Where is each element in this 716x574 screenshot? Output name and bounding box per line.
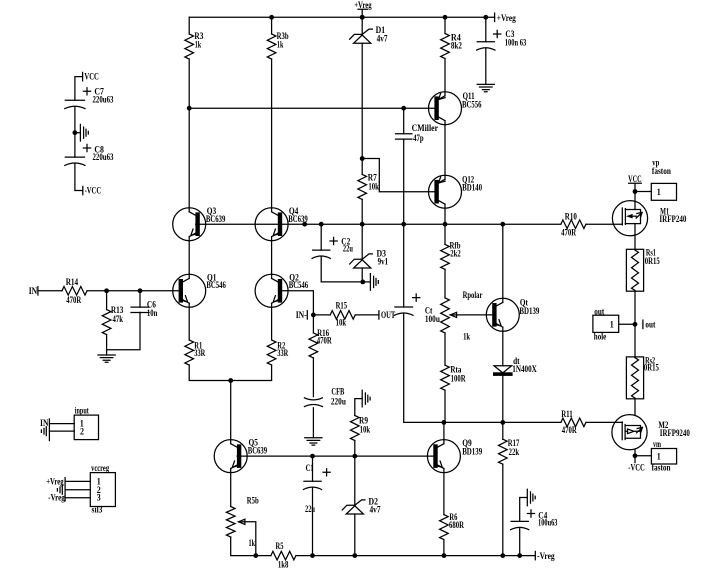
label R13 47k (111, 305, 124, 324)
wire Q12 base jog (362, 159, 435, 192)
resistor R2 (267, 340, 276, 365)
wire C1 to bottom rail (312, 488, 314, 556)
resistor Rs1 0R15 (626, 249, 643, 291)
wire Q1 emitter (188, 303, 190, 340)
svg-text:2: 2 (80, 427, 84, 437)
resistor R1 (185, 340, 194, 365)
resistor R13 (102, 310, 111, 335)
svg-text:2k2: 2k2 (450, 248, 461, 258)
resistor R14 (62, 287, 87, 296)
transistor Q1 BC546 (173, 274, 206, 307)
junction bottom rail / D2 (352, 553, 357, 558)
svg-text:vm: vm (653, 439, 661, 449)
svg-text:1k: 1k (277, 40, 284, 50)
svg-text:BC639: BC639 (288, 214, 308, 224)
resistor R4 (441, 34, 450, 59)
junction rail / Ct column (401, 222, 406, 227)
capacitor CMiller 47p (396, 134, 412, 139)
wire D3 column (361, 224, 363, 259)
label C8 220u63 (93, 144, 114, 162)
wire R17 top lead (502, 422, 504, 439)
mosfet M2 IRFP9240 (612, 415, 647, 450)
label vm faston pin1 (652, 439, 671, 472)
label Rpolar 1k (463, 290, 483, 341)
svg-text:220u63: 220u63 (93, 152, 114, 162)
label CFB 220u (331, 387, 346, 407)
svg-text:33R: 33R (277, 348, 288, 358)
svg-text:1: 1 (657, 451, 661, 461)
svg-text:470R: 470R (317, 336, 332, 346)
svg-text:-VCC: -VCC (628, 462, 645, 472)
wire C1 top lead (312, 456, 314, 481)
net tick VCC left (82, 72, 84, 80)
svg-text:100u: 100u (425, 314, 440, 324)
label R4 8k2 (451, 33, 462, 51)
junction +Vreg stub (360, 15, 365, 20)
svg-text:faston: faston (652, 463, 671, 473)
svg-text:IRFP9240: IRFP9240 (660, 428, 690, 438)
transistor Q12 BD140 (429, 175, 462, 208)
label R6 680R (449, 512, 464, 530)
wire input pin2 (49, 430, 74, 432)
junction top rail / R4 (443, 15, 448, 20)
label R5b 1k (247, 495, 259, 548)
wire IN- node to R15 (313, 314, 330, 316)
wire R5b wiper to bottom rail (245, 522, 256, 556)
svg-text:BC546: BC546 (206, 280, 226, 290)
wire R9 ground stub (355, 399, 362, 416)
ground under C3 (477, 84, 494, 91)
wire R2 to tail (231, 365, 272, 381)
wire C4 ground stub (520, 498, 528, 522)
wire +Vreg top rail (189, 16, 494, 18)
wire R1 to tail (189, 365, 231, 381)
wire stub ground R13 (106, 350, 108, 355)
wire Rpolar to Rta (444, 333, 446, 365)
ground at vccreg (57, 485, 62, 494)
junction Q5 rail / C1 (310, 454, 315, 459)
wire R14 to Q1 base (87, 290, 179, 292)
wire R7 to main rail (361, 199, 363, 224)
label IN (29, 286, 38, 296)
label out right (645, 319, 655, 329)
zener D2 (342, 500, 365, 514)
junction VCC / vp connector (633, 189, 638, 194)
ground under R13/C6 (98, 355, 115, 362)
junction rail / Qt collector (500, 222, 505, 227)
resistor R7 (358, 174, 367, 199)
wire Q9 emitter to R6 (443, 469, 445, 515)
svg-text:OUT: OUT (381, 310, 395, 320)
wire M1 source to Rs1 (634, 224, 636, 250)
resistor Rfb (441, 244, 450, 269)
label Q9 BD139 (462, 438, 482, 456)
junction top rail / R3b (269, 15, 274, 20)
svg-text:470R: 470R (562, 425, 577, 435)
transistor Q2 BC546 (255, 274, 288, 307)
label Q12 BD140 (462, 174, 482, 192)
junction Q5 rail / R9-D2 (352, 454, 357, 459)
resistor R10 (561, 220, 586, 229)
wire Ct to gate row R11 (404, 314, 561, 423)
wire Qt emitter to dt (502, 327, 504, 366)
wiper arrow Rpolar (450, 314, 456, 316)
ground under CFB (305, 438, 322, 445)
wire IN to R14 (38, 290, 62, 292)
label R9 10k (359, 416, 370, 435)
ground above C4 (527, 489, 535, 506)
wire R15 to OUT label (355, 314, 379, 316)
capacitor C3 column (485, 17, 487, 42)
wire R3b to Q4 collector (271, 59, 273, 212)
label vp faston pin1 (652, 158, 671, 197)
label Qt BD139 (519, 297, 539, 315)
label D2 4v7 (369, 497, 381, 515)
wire bottom -Vreg rail (296, 555, 535, 557)
plus C3 (494, 30, 501, 37)
svg-text:BC546: BC546 (289, 280, 309, 290)
wire R16 to CFB (312, 358, 314, 397)
net tick OUT (378, 311, 380, 319)
wire vccreg pin2 ground (65, 489, 90, 491)
label C2 22u (341, 236, 353, 253)
wire to vp connector (635, 191, 651, 193)
wire C4 to bottom rail (519, 528, 521, 556)
label -VCC at M2 (628, 462, 645, 472)
svg-text:+Vreg: +Vreg (354, 0, 372, 10)
svg-text:100u63: 100u63 (538, 517, 558, 527)
wire out node to out connector (619, 323, 635, 325)
wire D2 column (354, 456, 356, 505)
label Q1 BC546 (206, 273, 226, 291)
svg-text:BD139: BD139 (519, 306, 539, 316)
junction node108 / CMiller (401, 106, 406, 111)
label vccreg pins (91, 463, 109, 515)
svg-text:IN: IN (40, 418, 49, 428)
wire R9 to Q5 rail (354, 441, 356, 457)
svg-text:470R: 470R (561, 228, 576, 238)
net tick -Vreg (534, 551, 536, 559)
svg-text:10n: 10n (147, 308, 158, 318)
connector vp faston (651, 183, 676, 200)
plus C1 (323, 469, 330, 476)
wire Q12 to main rail (444, 204, 446, 224)
wire R16 column (312, 315, 314, 333)
wire C6 to ground row (107, 312, 140, 349)
ground at D3/C2 (370, 274, 378, 291)
svg-text:1N400X: 1N400X (512, 364, 537, 374)
svg-text:1k: 1k (195, 40, 202, 50)
label R3 1k (194, 31, 203, 49)
wire Rs1 to out node (634, 291, 636, 357)
transistor Q11 BC556 (429, 92, 462, 125)
transistor Q3 BC639 (173, 208, 206, 241)
wire R3b column upper (271, 17, 273, 34)
wire stub to chain ground (75, 132, 81, 134)
wire Rfb to Rpolar (444, 269, 446, 298)
resistor R9 (350, 416, 359, 441)
svg-text:BD139: BD139 (462, 446, 482, 456)
svg-text:4v7: 4v7 (370, 504, 381, 514)
junction bottom rail / R17 (500, 553, 505, 558)
wire Rfb top lead (444, 224, 446, 244)
label D1 4v7 (376, 25, 388, 43)
svg-text:100n 63: 100n 63 (505, 38, 527, 48)
label out hole pin1 (594, 306, 614, 341)
label R15 10k (336, 301, 348, 328)
svg-text:33R: 33R (194, 348, 205, 358)
capacitor Ct 100u (395, 306, 413, 308)
svg-text:hole: hole (594, 331, 607, 341)
junction IN- node (311, 313, 316, 318)
resistor R15 (330, 311, 355, 320)
wire VCC cap chain top corner (75, 77, 83, 101)
svg-text:+Vreg: +Vreg (497, 13, 516, 23)
label +Vreg right (497, 13, 516, 23)
label input pins (75, 405, 89, 436)
label -Vreg at vccreg (48, 493, 65, 503)
label D3 9v1 (377, 248, 389, 266)
svg-text:input: input (75, 405, 89, 415)
wire Q11 collector to Q12 (444, 121, 446, 180)
label Q11 BC556 (462, 91, 482, 109)
wire R10 to M1 gate (586, 223, 622, 225)
svg-text:10k: 10k (360, 424, 371, 434)
label R7 10k (368, 173, 379, 192)
label Ct 100u (425, 306, 440, 325)
potentiometer Rpolar (441, 298, 457, 333)
transistor Q9 BD139 (427, 440, 460, 473)
wire node108 to Q3 collector (188, 108, 190, 212)
svg-text:47p: 47p (413, 133, 424, 143)
svg-text:680R: 680R (449, 520, 464, 530)
wire C2 top lead (320, 224, 322, 250)
label C7 220u63 (93, 87, 114, 105)
plus C7 (83, 88, 90, 95)
wire C3 to ground (485, 48, 487, 84)
junction dot on rail (stray) (302, 222, 307, 227)
mosfet M1 IRFP240 (612, 201, 647, 236)
svg-text:1k8: 1k8 (278, 559, 289, 569)
label R10 470R (561, 211, 577, 237)
svg-text:R10: R10 (565, 211, 577, 221)
svg-text:+Vreg: +Vreg (46, 476, 64, 486)
junction rail / C2 (319, 222, 324, 227)
wire CFB to ground (312, 408, 314, 438)
capacitor C4 (511, 520, 528, 522)
svg-text:470R: 470R (66, 295, 81, 305)
resistor Rs2 0R15 (626, 357, 643, 399)
label Rfb 2k2 (450, 240, 462, 258)
wire to vm connector (635, 455, 651, 457)
junction bottom rail / C4 (517, 553, 522, 558)
net tick +Vreg right (494, 13, 496, 21)
label -Vreg (537, 551, 555, 561)
svg-text:Rpolar: Rpolar (463, 290, 483, 300)
connector out hole (593, 315, 619, 332)
svg-text:220u63: 220u63 (93, 94, 114, 104)
junction R7 top (360, 156, 365, 161)
label C1 22u (305, 463, 315, 514)
capacitor C6 (131, 307, 149, 312)
junction gate row / Q9 collector (442, 420, 447, 425)
svg-text:R5: R5 (276, 541, 284, 551)
label Q5 BC639 (248, 438, 268, 456)
wire vccreg pin1 +Vreg (65, 480, 90, 482)
svg-text:10k: 10k (368, 182, 379, 192)
net IN at input connector (48, 419, 50, 441)
svg-text:10k: 10k (336, 318, 347, 328)
wire dt to gate row (502, 376, 504, 422)
ground at VCC chain midpoint (80, 124, 88, 141)
svg-text:out: out (645, 319, 655, 329)
label R5 1k8 (276, 541, 289, 570)
svg-text:22u: 22u (343, 244, 353, 254)
svg-text:-Vreg: -Vreg (537, 551, 555, 561)
svg-text:IN: IN (29, 286, 38, 296)
svg-text:1: 1 (657, 187, 661, 197)
diode dt 1N400X (493, 366, 513, 376)
svg-text:BC556: BC556 (462, 99, 482, 109)
capacitor C1 22u (304, 480, 321, 482)
label R11 470R (561, 409, 577, 435)
potentiometer R5b (226, 507, 245, 538)
svg-text:CMiller: CMiller (412, 123, 439, 133)
svg-text:VCC: VCC (84, 71, 99, 81)
wire Ct column upper (403, 224, 405, 307)
wire D1 cathode-chain down to R7 (361, 43, 363, 174)
net +Vreg (top stub) (358, 9, 367, 17)
junction bottom rail / wiper (253, 553, 258, 558)
junction top rail / D1 (360, 15, 365, 20)
svg-text:22u: 22u (305, 504, 315, 514)
junction VCC chain midpoint (73, 130, 78, 135)
junction -VCC / vm connector (633, 453, 638, 458)
svg-text:IRFP240: IRFP240 (659, 214, 686, 224)
net ticks vccreg (64, 478, 66, 501)
connector vm faston (651, 449, 676, 465)
svg-text:0R15: 0R15 (645, 256, 660, 266)
wire Q2 base jog to IN- node (282, 291, 314, 315)
wire Q5 base rail to Q9 (237, 455, 435, 457)
wire Q3 emitter to Q1 collector (188, 237, 190, 279)
wire C2 bottom to ground node (321, 257, 363, 282)
wire Rpolar wiper to Qt base (456, 314, 493, 316)
wire Rs2 to M2 drain (634, 399, 636, 415)
wire input pin1 (49, 423, 74, 425)
junction input / R13 (104, 288, 109, 293)
wire C6 column (139, 291, 141, 307)
wire D2 to bottom rail (354, 514, 356, 556)
label Q4 BC639 (288, 206, 308, 224)
wire CMiller column upper (403, 108, 405, 134)
net IN input (37, 287, 39, 295)
svg-text:8k2: 8k2 (451, 40, 462, 50)
label VCC left (84, 71, 99, 81)
label VCC at M1 (628, 174, 642, 184)
resistor R17 (498, 439, 507, 464)
ground above R9 (362, 390, 370, 407)
svg-text:faston: faston (652, 166, 671, 176)
net tick out (642, 320, 644, 328)
plus C2 (330, 237, 337, 244)
capacitor CFB 220u (304, 398, 322, 400)
junction top rail / C3 (483, 15, 488, 20)
wire M2 source to -VCC node (634, 450, 636, 456)
wire R13 to ground row (106, 335, 108, 350)
net tick -VCC left (82, 186, 84, 194)
wire tail to Q5 collector (230, 381, 232, 444)
label IN at connector (40, 418, 49, 428)
svg-text:VCC: VCC (628, 174, 642, 184)
svg-text:BC639: BC639 (206, 214, 226, 224)
svg-text:R15: R15 (336, 301, 348, 311)
junction out node (633, 322, 638, 327)
resistor R5 (271, 551, 296, 560)
wire Q9 collector (443, 422, 445, 443)
transistor Q4 BC639 (255, 208, 288, 241)
svg-text:1k: 1k (463, 331, 470, 341)
svg-text:vccreg: vccreg (91, 463, 109, 473)
junction gate row / dt-R17 (500, 420, 505, 425)
wire R6 to bottom rail (443, 540, 445, 556)
wire R3 to node108 (188, 59, 190, 108)
label OUT (381, 310, 395, 320)
wire R11 to M2 gate (586, 421, 622, 423)
label R2 33R (277, 341, 288, 358)
resistor R11 (561, 418, 586, 427)
wire D3 to ground node (361, 268, 363, 282)
wire Q5 emitter to R5b (230, 469, 232, 507)
connector input (74, 415, 98, 440)
svg-text:BC639: BC639 (248, 446, 268, 456)
connector vccreg sil3 (90, 473, 115, 507)
wire R3 column (188, 17, 190, 34)
svg-text:C1: C1 (306, 463, 314, 473)
wire main VAS rail (196, 223, 561, 225)
svg-text:4v7: 4v7 (377, 33, 388, 43)
svg-text:R5b: R5b (247, 495, 259, 505)
wire Rta to gate row (444, 390, 446, 422)
svg-text:9v1: 9v1 (378, 256, 389, 266)
junction rail / Q12-Rfb (443, 222, 448, 227)
plus C4 (527, 510, 534, 517)
label dt 1N400X (512, 356, 537, 374)
wire C7 to C8 (74, 107, 76, 157)
junction input / C6 (138, 288, 143, 293)
junction node108 / R3 column (187, 106, 192, 111)
transistor Q5 BC639 (214, 440, 247, 473)
label R3b 1k (277, 31, 289, 49)
wire Q2 emitter (271, 303, 273, 340)
wire node108 rail (R3 bottom to Q11 base) (189, 107, 435, 109)
capacitor C8 (65, 156, 84, 158)
label +Vreg at vccreg (46, 476, 64, 486)
label Q3 BC639 (206, 206, 226, 224)
wiper arrow R5b (239, 521, 245, 523)
svg-text:CFB: CFB (331, 387, 344, 397)
ground at input connector (41, 427, 46, 436)
svg-text:IN-: IN- (296, 310, 307, 320)
svg-text:0R15: 0R15 (644, 362, 659, 372)
svg-text:-VCC: -VCC (85, 185, 102, 195)
plus C8 (83, 144, 90, 151)
label +Vreg top (354, 0, 372, 10)
transistor Qt BD139 (486, 298, 519, 331)
wire R13 column (106, 291, 108, 310)
svg-text:R11: R11 (561, 409, 573, 419)
wire Qt collector to rail (502, 224, 504, 302)
